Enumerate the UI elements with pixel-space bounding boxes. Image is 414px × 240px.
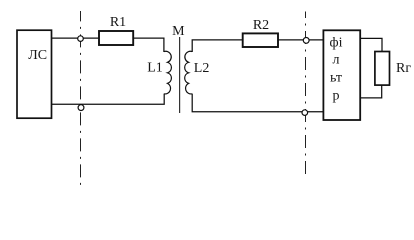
resistor Rг bbox=[375, 52, 390, 86]
resistor R1 bbox=[99, 31, 133, 45]
svg-text:л: л bbox=[333, 52, 340, 67]
wire transformer secondary to R2 bbox=[192, 40, 243, 52]
svg-text:ЛС: ЛС bbox=[28, 48, 47, 63]
svg-text:ьт: ьт bbox=[330, 70, 342, 85]
wire primary bottom to ЛС bbox=[52, 94, 165, 105]
svg-text:фі: фі bbox=[330, 36, 343, 51]
block ЛС (line) bbox=[17, 30, 52, 118]
svg-text:L1: L1 bbox=[147, 61, 163, 76]
inductor L2 secondary winding bbox=[185, 51, 193, 94]
wire secondary bottom to filter bbox=[192, 94, 323, 112]
svg-text:р: р bbox=[333, 88, 340, 103]
terminal bottom-right bbox=[302, 110, 308, 116]
svg-text:М: М bbox=[172, 24, 185, 39]
terminal top-right bbox=[303, 38, 309, 44]
wire R2 to filter bbox=[278, 39, 323, 41]
svg-text:L2: L2 bbox=[194, 61, 210, 76]
terminal top-left bbox=[78, 36, 84, 42]
transformer core bbox=[179, 37, 181, 113]
inductor L1 primary winding bbox=[164, 51, 172, 94]
wire filter to Rг top bbox=[360, 38, 382, 51]
svg-text:Rг: Rг bbox=[396, 61, 411, 76]
wire ЛС to R1 (top left) bbox=[52, 37, 100, 39]
wire R1 to transformer primary bbox=[133, 38, 164, 52]
terminal bottom-left bbox=[78, 105, 84, 111]
svg-text:R1: R1 bbox=[110, 15, 126, 30]
boundary dash-dot line right bbox=[305, 12, 307, 178]
boundary dash-dot line left bbox=[80, 11, 82, 185]
svg-text:R2: R2 bbox=[253, 18, 269, 33]
resistor R2 bbox=[243, 33, 278, 47]
wire Rг to filter bottom bbox=[360, 85, 382, 98]
block фільтр (filter) bbox=[323, 30, 360, 120]
